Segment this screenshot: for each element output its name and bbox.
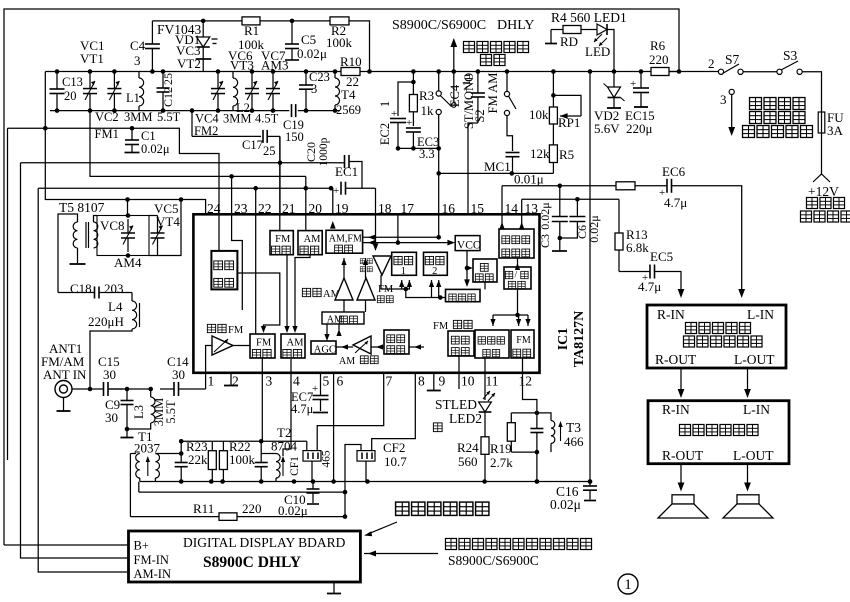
svg-text:11: 11 [486,374,499,389]
svg-text:20: 20 [309,201,323,216]
svg-text:20: 20 [64,89,77,103]
svg-text:C4: C4 [130,38,146,53]
svg-text:VCO: VCO [457,240,481,252]
svg-text:L-IN: L-IN [747,307,774,322]
svg-text:C13: C13 [62,75,83,89]
svg-text:2: 2 [432,266,437,277]
svg-text:VT1: VT1 [80,51,104,66]
svg-text:+: + [391,108,397,120]
svg-text:ANT IN: ANT IN [43,367,87,382]
svg-text:R5: R5 [559,147,574,162]
svg-text:RP1: RP1 [558,115,580,130]
svg-text:L2: L2 [236,101,250,115]
svg-text:30: 30 [105,410,118,425]
svg-text:L4: L4 [108,299,123,314]
svg-text:T3: T3 [566,420,581,435]
svg-text:R4 560 LED1: R4 560 LED1 [551,10,627,25]
svg-text:/: / [515,271,518,281]
svg-text:5.5T: 5.5T [164,400,178,424]
svg-text:3: 3 [266,374,273,389]
svg-text:0.02μ: 0.02μ [278,503,308,518]
svg-text:R1: R1 [244,23,259,38]
svg-text:C1: C1 [141,129,156,143]
svg-text:3: 3 [134,53,141,68]
svg-text:R6: R6 [650,38,666,53]
svg-text:30: 30 [103,367,116,382]
svg-text:R-IN: R-IN [662,402,690,417]
svg-text:0.02μ: 0.02μ [550,497,581,512]
svg-text:μ: μ [320,46,327,61]
svg-text:T4: T4 [341,87,356,102]
svg-text:12k: 12k [530,146,550,161]
svg-text:14: 14 [505,201,519,216]
svg-text:FM-IN: FM-IN [134,553,169,567]
svg-text:C20: C20 [304,142,318,162]
svg-text:19: 19 [335,201,349,216]
svg-text:R19: R19 [490,441,512,456]
svg-text:LED2: LED2 [449,411,482,426]
svg-text:2.7k: 2.7k [490,455,513,470]
svg-text:AM: AM [304,234,322,245]
svg-text:2: 2 [708,56,715,71]
svg-text:R-IN: R-IN [657,307,685,322]
svg-text:18: 18 [378,201,392,216]
svg-text:3: 3 [720,92,727,107]
svg-text:AM-IN: AM-IN [134,567,172,581]
svg-text:9: 9 [439,374,446,389]
svg-text:0.02μ: 0.02μ [141,142,170,156]
svg-text:100k: 100k [229,452,256,467]
svg-text:0.02: 0.02 [297,46,320,61]
svg-text:220: 220 [242,501,262,516]
svg-text:5.6V: 5.6V [594,121,620,136]
svg-text:FM: FM [516,335,531,346]
svg-text:21: 21 [282,201,296,216]
svg-text:16: 16 [442,201,456,216]
svg-text:10: 10 [461,374,475,389]
svg-text:S8900C/S6900C: S8900C/S6900C [448,553,539,568]
svg-text:3A: 3A [827,123,844,138]
svg-text:S3: S3 [783,48,798,63]
svg-text:S8900C DHLY: S8900C DHLY [203,554,301,571]
svg-text:1000p: 1000p [318,137,330,166]
svg-text:DIGITAL DISPLAY BDARD: DIGITAL DISPLAY BDARD [183,535,346,550]
svg-text:8704: 8704 [271,439,298,454]
svg-text:22k: 22k [188,452,208,467]
svg-text:220: 220 [649,52,669,67]
svg-text:4: 4 [293,374,300,389]
svg-text:15: 15 [471,201,485,216]
svg-text:R10: R10 [340,54,362,69]
svg-text:25: 25 [161,73,175,85]
svg-text:L-OUT: L-OUT [734,352,775,367]
svg-text:L-IN: L-IN [743,402,770,417]
svg-text:LED: LED [585,44,610,59]
svg-text:24: 24 [207,201,221,216]
svg-text:MC1: MC1 [484,159,511,174]
svg-text:R-OUT: R-OUT [662,448,704,463]
svg-text:6: 6 [337,374,344,389]
svg-text:22: 22 [346,74,359,89]
svg-text:3MM: 3MM [124,110,152,124]
svg-text:0.02μ: 0.02μ [538,202,552,229]
svg-text:FM2: FM2 [194,124,218,138]
svg-text:3: 3 [311,82,317,96]
svg-text:4.7μ: 4.7μ [664,195,687,210]
svg-text:8: 8 [418,374,425,389]
svg-text:L3: L3 [132,405,146,419]
svg-text:S7: S7 [725,52,740,67]
svg-text:220μ: 220μ [626,121,653,136]
svg-text:1: 1 [624,577,632,593]
svg-text:EC2: EC2 [378,123,392,145]
svg-text:VC2: VC2 [95,110,119,124]
svg-text:+12V: +12V [808,184,839,199]
svg-text:CF2: CF2 [383,440,405,455]
svg-text:5: 5 [323,374,330,389]
svg-text:STLED: STLED [435,397,477,412]
svg-text:17: 17 [401,201,415,216]
svg-text:EC4: EC4 [448,84,462,107]
svg-text:12: 12 [519,374,533,389]
svg-text:6.8k: 6.8k [626,240,649,255]
svg-text:30: 30 [172,367,185,382]
svg-text:4.7μ: 4.7μ [291,402,314,416]
svg-text:C5: C5 [301,32,316,47]
svg-text:3.3: 3.3 [419,147,435,161]
svg-text:L1: L1 [126,91,140,105]
svg-text:4.7μ: 4.7μ [638,279,661,294]
svg-text:100k: 100k [326,35,353,50]
svg-text:B+: B+ [134,539,149,553]
svg-text:220μH: 220μH [88,314,124,329]
svg-text:R24: R24 [457,440,479,455]
svg-text:25: 25 [263,144,276,158]
svg-text:T5 8107: T5 8107 [59,200,105,215]
svg-text:FM: FM [347,233,362,244]
svg-text:FM AM: FM AM [486,73,500,114]
svg-text:1k: 1k [421,103,435,118]
svg-text:+: + [406,117,412,129]
svg-text:23: 23 [234,201,248,216]
svg-text:AM: AM [286,337,304,348]
svg-text:C3: C3 [538,234,552,248]
svg-text:EC1: EC1 [335,164,358,179]
svg-text:R3: R3 [419,88,434,103]
svg-text:560: 560 [458,454,478,469]
svg-text:2569: 2569 [336,103,361,117]
svg-text:FM: FM [256,337,272,348]
svg-text:R11: R11 [193,501,214,516]
svg-text:FM: FM [228,325,244,336]
svg-text:EC5: EC5 [650,249,673,264]
svg-text:FM: FM [433,321,449,332]
svg-text:466: 466 [564,434,584,449]
svg-text:+: + [630,78,636,90]
svg-text:22: 22 [258,201,272,216]
svg-text:AM4: AM4 [114,255,142,270]
svg-text:IC1: IC1 [556,328,571,351]
svg-text:10.7: 10.7 [384,454,407,469]
svg-text:AM,: AM, [329,233,348,244]
svg-text:VT4: VT4 [156,214,180,229]
svg-text:EC6: EC6 [662,164,686,179]
svg-text:+: + [312,383,318,395]
svg-text:150: 150 [285,130,304,144]
svg-text:L-OUT: L-OUT [733,448,774,463]
svg-text:203: 203 [104,281,124,296]
svg-text:0.02μ: 0.02μ [587,215,601,242]
svg-text:13: 13 [525,201,539,216]
svg-text:1: 1 [378,101,392,107]
svg-text:CF1: CF1 [289,456,301,476]
svg-text:RD: RD [560,34,578,49]
svg-text:+: + [333,185,339,197]
svg-text:TA8127N: TA8127N [572,311,587,368]
svg-text:4.5T: 4.5T [255,112,279,126]
svg-text:5.5T: 5.5T [157,110,181,124]
svg-text:R-OUT: R-OUT [655,352,697,367]
svg-text:AGC: AGC [314,344,336,355]
svg-text:FM1: FM1 [95,127,119,141]
svg-text:FM: FM [275,234,291,245]
svg-text:VC8: VC8 [100,218,125,233]
svg-text:AM: AM [339,356,355,367]
svg-text:C18: C18 [70,281,92,296]
svg-text:1: 1 [208,374,215,389]
svg-text:1: 1 [401,266,406,277]
svg-text:C17: C17 [242,138,263,152]
svg-text:S8900C/S6900C: S8900C/S6900C [392,18,486,33]
svg-text:10k: 10k [529,107,549,122]
svg-text:DHLY: DHLY [497,18,534,33]
svg-text:S2: S2 [473,109,487,122]
svg-text:C12: C12 [161,87,175,107]
svg-text:7: 7 [386,374,393,389]
svg-text:465: 465 [321,450,333,468]
svg-text:0.01μ: 0.01μ [514,172,544,187]
